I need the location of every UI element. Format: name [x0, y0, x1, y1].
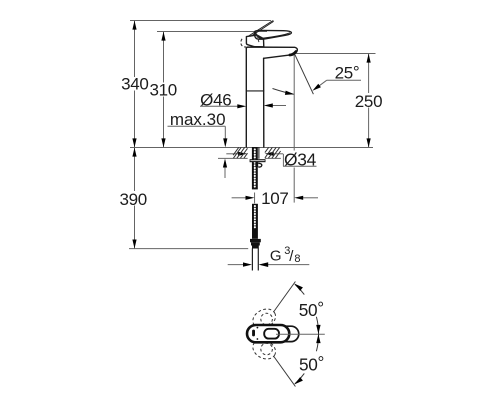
O46 underline + leader — [200, 105, 238, 107]
deck line — [130, 147, 373, 149]
curved arrow head — [285, 91, 294, 95]
dashed rotated handle upper — [250, 305, 279, 331]
O34 leader — [226, 153, 239, 155]
25 deg underline — [327, 79, 361, 81]
dashed rotated handle lower — [250, 336, 279, 362]
arrowhead O34 left — [238, 152, 247, 156]
spout top — [246, 47, 297, 53]
bottom extension line — [129, 248, 248, 250]
dot lower — [257, 338, 259, 340]
250 top extension — [294, 53, 375, 55]
107 dimension — [232, 197, 247, 199]
lever inner line — [262, 33, 289, 38]
joint line — [246, 90, 263, 92]
nut stub with hook — [255, 162, 258, 167]
svg-text:340: 340 — [121, 74, 148, 93]
arrowhead G3/8 right — [259, 262, 269, 267]
arc arrowhead lower at centerline — [316, 334, 320, 343]
arrowhead O46 left — [237, 104, 246, 108]
arrowhead 310 top — [161, 32, 165, 41]
aerator — [290, 52, 296, 55]
spout underside — [264, 55, 291, 58]
svg-text:G: G — [270, 248, 281, 265]
arrowhead max.30 top — [223, 138, 227, 147]
dashed interior line — [257, 35, 260, 43]
arrowhead 340 top — [132, 21, 136, 30]
svg-text:310: 310 — [149, 80, 176, 99]
lower 50 arc — [295, 373, 305, 383]
svg-text:8: 8 — [294, 253, 300, 265]
G3/8 tube — [251, 248, 253, 270]
hose thread coil — [254, 206, 256, 230]
arc arrowhead upper at centerline — [316, 325, 320, 334]
shank lower (hose) — [252, 204, 258, 239]
svg-text:25°: 25° — [335, 62, 360, 82]
svg-text:50°: 50° — [299, 352, 324, 374]
hatching left — [233, 147, 247, 158]
G3/8 dimension — [228, 264, 244, 266]
arrowhead 390 bottom — [132, 240, 136, 249]
dimension line 340 — [134, 21, 136, 78]
arrowhead 107 left — [246, 196, 255, 200]
dashed inner ring upper — [261, 313, 273, 325]
svg-text:107: 107 — [261, 189, 288, 208]
max.30 lower arrow shaft — [224, 164, 226, 178]
lever blade — [254, 30, 291, 39]
hose end nut — [250, 239, 261, 242]
svg-text:50°: 50° — [299, 298, 324, 320]
arrowhead G3/8 left — [243, 262, 252, 266]
arrowhead O34 right — [265, 152, 274, 156]
vertical extension at spout outlet — [293, 55, 295, 151]
left dot bar — [252, 330, 255, 337]
shank thread coil — [254, 149, 256, 188]
curved arrow to outlet line — [273, 89, 294, 95]
svg-text:max.30: max.30 — [170, 110, 226, 129]
threaded shank upper — [252, 147, 258, 189]
arc arrowhead at upper diagonal — [294, 284, 303, 291]
dashed arc left of handle — [241, 39, 246, 47]
arrowhead 340 bottom — [132, 138, 136, 147]
svg-text:390: 390 — [119, 190, 146, 209]
arrowhead 310 bottom — [161, 138, 165, 147]
25deg leader arrowhead — [312, 84, 321, 91]
107 extension stub at hose axis — [254, 193, 256, 204]
dimension line 390 — [134, 148, 136, 192]
upper 50 arc — [295, 284, 305, 294]
column left — [245, 48, 247, 147]
svg-text:Ø34: Ø34 — [284, 149, 317, 169]
lever shading — [255, 33, 261, 39]
grip extension (thin) — [276, 326, 299, 341]
extension line (310) — [157, 31, 267, 33]
dashed inner ring lower — [261, 343, 273, 355]
centerline — [276, 333, 325, 335]
lower diagonal — [274, 356, 296, 387]
O46 right arrow tail — [271, 105, 286, 107]
handle body — [246, 35, 263, 47]
arrowhead 107 right — [294, 196, 303, 200]
shank right sliver line — [258, 147, 260, 159]
arc arrowhead at lower diagonal — [294, 377, 303, 384]
max.30 leader — [168, 125, 226, 127]
stream line 25deg — [294, 53, 313, 94]
solid handle outer — [247, 325, 289, 342]
upper diagonal — [274, 282, 296, 313]
dot upper — [257, 327, 259, 329]
extension line top (340) — [130, 20, 271, 22]
column right — [263, 58, 265, 147]
dimension line 310 — [163, 32, 165, 83]
arrowhead 250 top — [367, 54, 371, 63]
arrowhead O46 right — [264, 103, 273, 107]
svg-text:250: 250 — [355, 92, 382, 111]
washer below deck — [250, 159, 266, 162]
dimension line 250 — [368, 54, 370, 94]
arrowhead 390 top — [132, 148, 136, 157]
arrowhead max.30 bottom — [223, 159, 227, 168]
hatching right — [265, 147, 281, 158]
inner stadium — [264, 329, 279, 339]
lever tip strokes — [249, 21, 274, 37]
svg-text:Ø46: Ø46 — [200, 91, 231, 110]
arrowhead 250 bottom — [367, 138, 371, 147]
arc arrowheads — [294, 284, 320, 385]
deck bottom line — [218, 157, 248, 159]
